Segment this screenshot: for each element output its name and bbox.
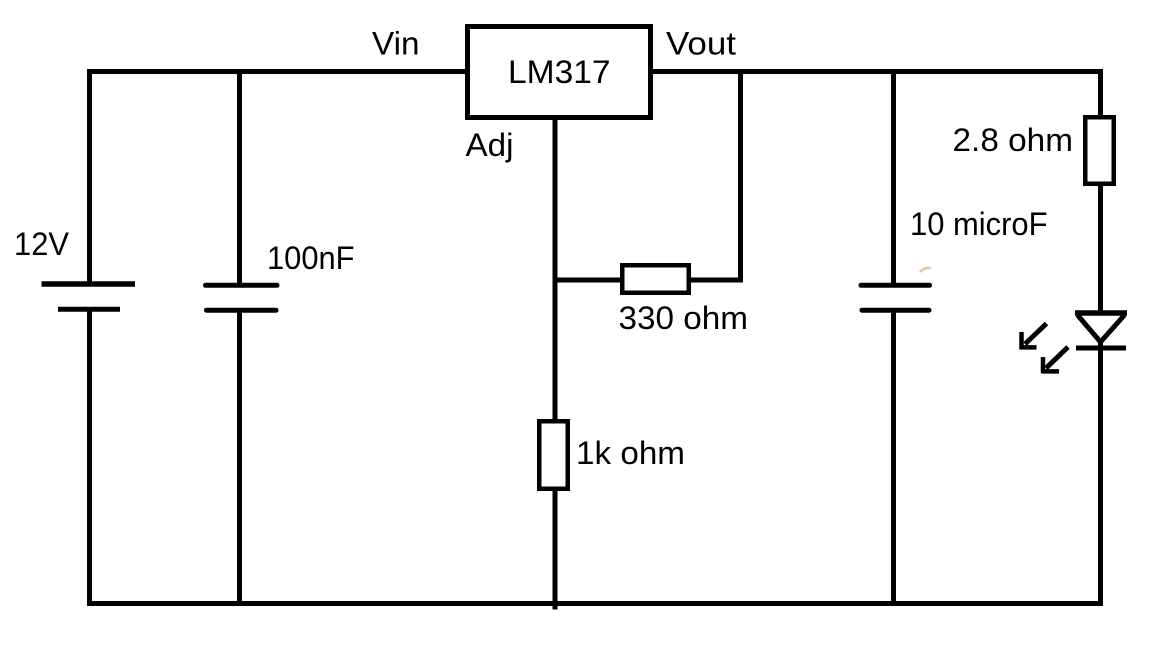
wire: input capacitor branch upper segment xyxy=(237,72,242,286)
stray pencil smudge xyxy=(920,268,931,272)
battery V1 top plate (positive, long) xyxy=(42,281,136,287)
wire: bottom rail (ground return) xyxy=(87,601,1103,606)
svg-text:LM317: LM317 xyxy=(508,54,611,90)
LED emission arrow 2 head vertical tick xyxy=(1041,357,1046,373)
svg-text:Adj: Adj xyxy=(466,127,514,163)
LED emission arrow 1 head horizontal tick xyxy=(1020,345,1037,350)
wire: Adj node to R1 left lead xyxy=(555,278,623,283)
wire: R1 right lead to Vout branch xyxy=(688,278,743,283)
svg-text:Vout: Vout xyxy=(666,26,736,62)
wire: R3 to LED anode xyxy=(1098,183,1103,315)
wire: LED cathode to bottom rail xyxy=(1098,340,1103,604)
svg-text:12V: 12V xyxy=(14,226,70,262)
wire: input capacitor branch lower segment xyxy=(237,310,242,604)
capacitor C2 10 microF top plate xyxy=(861,283,930,288)
LED emission arrow 2 shaft xyxy=(1046,347,1068,368)
wire: output capacitor branch upper segment xyxy=(891,72,896,286)
wire: Vout branch vertical (top rail down to R1) xyxy=(738,72,743,283)
resistor R3 2.8 ohm body xyxy=(1085,117,1114,184)
wire: battery branch upper segment xyxy=(87,69,92,285)
svg-text:Vin: Vin xyxy=(372,26,420,62)
LED D1 cathode bar xyxy=(1076,346,1126,351)
LED emission arrow 1 head vertical tick xyxy=(1019,332,1024,350)
LED emission arrow 2 head horizontal tick xyxy=(1042,369,1060,374)
svg-text:330 ohm: 330 ohm xyxy=(619,300,749,336)
wire: battery branch lower segment xyxy=(87,309,92,603)
wire: top rail right segment (LM317 Vout pin to LED branch corner) xyxy=(651,69,1103,74)
LED D1 triangle right side xyxy=(1101,315,1125,342)
wire: Adj branch upper segment (LM317 Adj pin down to R2) xyxy=(553,118,558,423)
wire: Adj branch lower segment (R2 to bottom rail, small overshoot) xyxy=(553,488,558,610)
wire: top rail left segment (battery node to LM317 Vin pin) xyxy=(87,69,467,74)
capacitor C1 100nF top plate xyxy=(206,283,278,288)
svg-text:10 microF: 10 microF xyxy=(910,206,1048,242)
svg-text:100nF: 100nF xyxy=(267,240,355,276)
resistor R1 330 ohm body xyxy=(622,265,689,293)
LED emission arrow 1 shaft xyxy=(1025,324,1047,345)
LED D1 triangle top edge xyxy=(1075,310,1127,316)
resistor R2 1k ohm body xyxy=(539,421,568,489)
svg-text:2.8 ohm: 2.8 ohm xyxy=(953,122,1074,158)
battery V1 bottom plate (negative, short) xyxy=(58,307,120,312)
regulator U1 LM317 body xyxy=(468,27,651,118)
LED D1 triangle left side xyxy=(1078,315,1101,342)
capacitor C1 100nF bottom plate xyxy=(207,308,277,313)
svg-text:1k ohm: 1k ohm xyxy=(576,435,685,471)
wire: output capacitor branch lower segment xyxy=(891,310,896,604)
wire: LED branch corner drop (top rail to R3) xyxy=(1098,69,1103,118)
capacitor C2 10 microF bottom plate xyxy=(862,308,929,313)
